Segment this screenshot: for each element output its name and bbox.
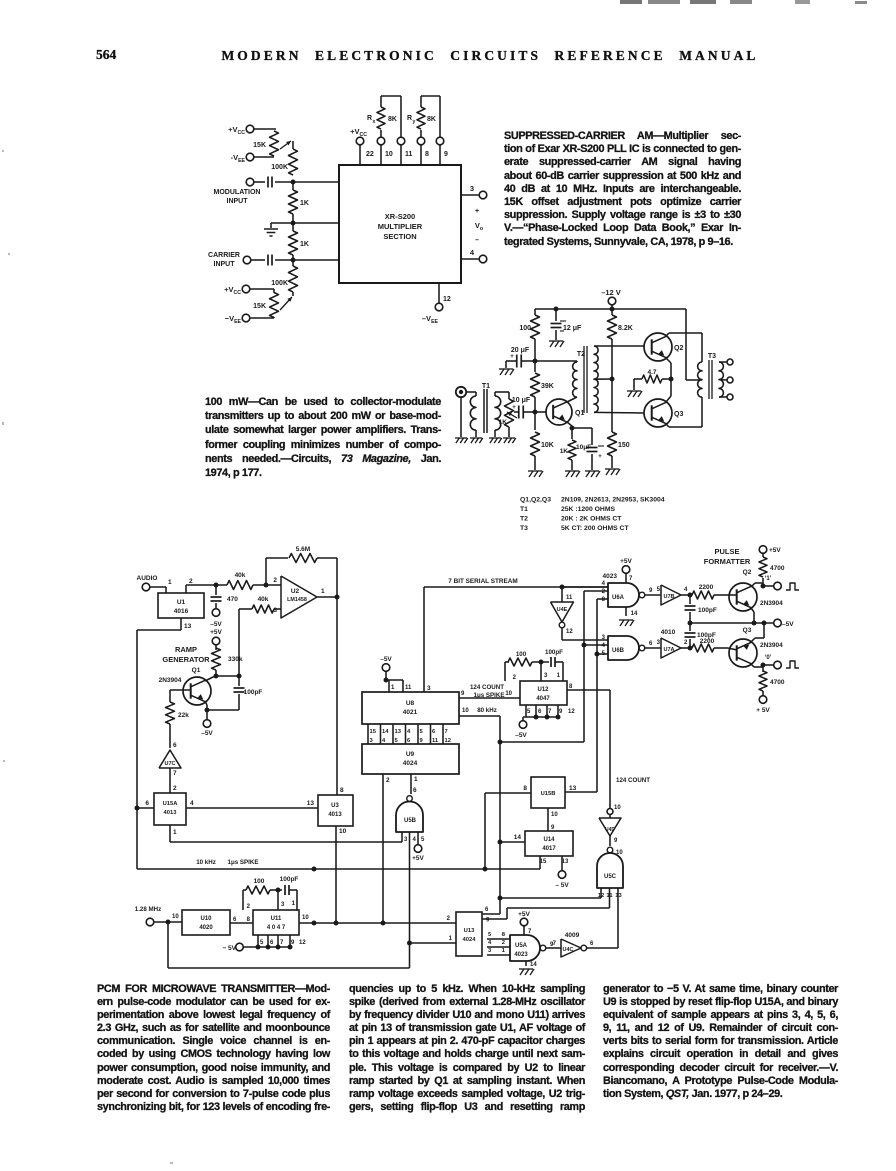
svg-text:Q3: Q3 bbox=[743, 627, 752, 634]
svg-text:14: 14 bbox=[382, 729, 389, 735]
wire Q3 collector bbox=[751, 663, 774, 668]
wire Q2 emitter bbox=[751, 608, 754, 623]
svg-text:INPUT: INPUT bbox=[227, 198, 249, 205]
svg-text:100: 100 bbox=[519, 325, 531, 332]
svg-text:4: 4 bbox=[413, 837, 417, 843]
svg-text:R: R bbox=[407, 115, 412, 122]
wire 10kHz spike line bbox=[137, 859, 540, 869]
buffer U7C bbox=[159, 742, 181, 777]
node output 0 bbox=[765, 655, 799, 669]
svg-text:4: 4 bbox=[684, 587, 688, 593]
IC U3 4013 flip-flop bbox=[318, 795, 353, 826]
wire top rail bbox=[535, 308, 686, 310]
svg-text:5: 5 bbox=[488, 932, 492, 938]
svg-text:x: x bbox=[373, 119, 376, 125]
svg-text:4017: 4017 bbox=[542, 846, 556, 852]
svg-text:1K: 1K bbox=[560, 448, 569, 455]
text block: PCM column 1 bbox=[97, 983, 330, 1114]
svg-text:10: 10 bbox=[462, 708, 469, 714]
svg-text:7 BIT SERIAL STREAM: 7 BIT SERIAL STREAM bbox=[448, 578, 517, 585]
node 1.28MHz input bbox=[135, 906, 182, 926]
node -5V rail bbox=[688, 619, 795, 628]
svg-text:U3: U3 bbox=[331, 803, 339, 809]
svg-text:1: 1 bbox=[557, 673, 561, 679]
svg-text:12: 12 bbox=[299, 940, 306, 946]
svg-text:T2: T2 bbox=[520, 516, 528, 523]
wire x597 net bbox=[565, 599, 608, 792]
node AUDIO input terminal bbox=[137, 575, 172, 593]
label pulse formatter bbox=[704, 547, 751, 566]
wire 1.28MHz rail bottom bbox=[168, 922, 410, 968]
svg-text:11: 11 bbox=[432, 738, 439, 744]
svg-text:7: 7 bbox=[173, 770, 177, 777]
svg-text:13: 13 bbox=[395, 729, 402, 735]
svg-text:3: 3 bbox=[370, 738, 374, 744]
svg-text:40k: 40k bbox=[235, 572, 246, 579]
svg-text:6: 6 bbox=[485, 907, 489, 913]
svg-text:12: 12 bbox=[566, 629, 573, 635]
svg-text:U9: U9 bbox=[406, 751, 415, 758]
capacitor 100pF timing bbox=[532, 649, 563, 681]
svg-text:10 μF: 10 μF bbox=[512, 397, 531, 404]
node ramp junction bbox=[214, 674, 242, 679]
svg-text:124 COUNT: 124 COUNT bbox=[616, 777, 650, 784]
svg-text:3: 3 bbox=[657, 640, 661, 646]
wire U15B pin10 to U14 bbox=[548, 808, 558, 831]
svg-text:y: y bbox=[413, 119, 416, 125]
wire Q2 emitter bbox=[666, 358, 671, 379]
capacitor 100pF lower bbox=[685, 623, 716, 651]
svg-text:13: 13 bbox=[615, 893, 622, 899]
wire bbox=[238, 609, 240, 676]
svg-text:8: 8 bbox=[340, 787, 344, 794]
svg-text:Q1: Q1 bbox=[575, 410, 584, 417]
svg-text:Q3: Q3 bbox=[674, 411, 683, 418]
svg-text:+: + bbox=[512, 405, 516, 411]
wire audio bus bbox=[186, 584, 227, 586]
resistor 4700 lower bbox=[756, 667, 785, 714]
parts list text bbox=[520, 497, 665, 533]
svg-text:‘1’: ‘1’ bbox=[765, 576, 772, 582]
svg-text:U7C: U7C bbox=[164, 761, 175, 767]
ground bbox=[605, 469, 620, 475]
wire rail to T3 CT bbox=[686, 309, 702, 380]
svg-text:–5V: –5V bbox=[515, 732, 527, 739]
svg-text:12 μF: 12 μF bbox=[563, 325, 582, 332]
svg-text:2: 2 bbox=[513, 675, 517, 681]
node +5V ramp supply bbox=[210, 629, 222, 650]
resistor 330k bbox=[212, 648, 243, 676]
svg-text:+VCC: +VCC bbox=[350, 127, 367, 138]
wire bbox=[293, 222, 339, 224]
transistor Q2 bbox=[644, 333, 683, 361]
svg-text:R: R bbox=[367, 115, 372, 122]
svg-text:5: 5 bbox=[395, 738, 399, 744]
svg-text:330k: 330k bbox=[228, 656, 243, 663]
resistor 1K emitter bbox=[560, 428, 576, 470]
svg-text:1: 1 bbox=[292, 901, 296, 907]
svg-text:11: 11 bbox=[405, 151, 413, 158]
svg-text:1: 1 bbox=[168, 579, 172, 586]
svg-text:CARRIER: CARRIER bbox=[208, 252, 240, 259]
buffer U7B 4010 bbox=[645, 585, 690, 605]
svg-text:100K: 100K bbox=[271, 280, 288, 287]
IC U11 4047 mono bbox=[253, 910, 299, 935]
svg-text:Q2: Q2 bbox=[674, 345, 683, 352]
svg-text:2200: 2200 bbox=[699, 584, 714, 591]
transformer T2 bbox=[573, 346, 644, 413]
svg-text:8: 8 bbox=[502, 932, 506, 938]
wire Q2 collector bbox=[751, 583, 766, 589]
svg-text:1.28 MHz: 1.28 MHz bbox=[135, 906, 161, 913]
resistor 2200 lower bbox=[692, 638, 728, 652]
svg-text:FORMATTER: FORMATTER bbox=[704, 557, 751, 566]
node junction bbox=[688, 593, 693, 598]
text block: PCM column 3 bbox=[603, 983, 838, 1101]
svg-text:3: 3 bbox=[427, 685, 431, 692]
svg-text:2: 2 bbox=[247, 904, 251, 910]
buffer U7A 4010 bbox=[645, 629, 690, 658]
wire U9 pin2 bbox=[383, 774, 390, 923]
svg-text:+5V: +5V bbox=[210, 629, 222, 636]
IC U14 4017 bbox=[525, 831, 573, 856]
node output pin 3 bbox=[461, 184, 487, 199]
svg-text:8.2K: 8.2K bbox=[618, 325, 633, 332]
svg-text:15K: 15K bbox=[253, 142, 266, 149]
svg-text:6: 6 bbox=[413, 787, 417, 794]
resistor 100 U11 timing bbox=[243, 878, 270, 910]
resistor 5.6M feedback bbox=[266, 546, 337, 597]
svg-text:14: 14 bbox=[631, 611, 638, 617]
svg-text:U6B: U6B bbox=[612, 648, 625, 654]
ground bbox=[565, 471, 580, 477]
svg-text:8: 8 bbox=[602, 597, 606, 603]
inverter U4E bbox=[551, 587, 609, 640]
wire U15B pin8 bbox=[485, 785, 531, 869]
svg-text:39K: 39K bbox=[541, 383, 554, 390]
svg-text:4024: 4024 bbox=[463, 937, 477, 943]
svg-text:PULSE: PULSE bbox=[714, 547, 739, 556]
wire U8 pin3 serial bbox=[424, 587, 608, 692]
ground bbox=[585, 471, 600, 477]
svg-text:6: 6 bbox=[145, 800, 149, 807]
capacitor modulation coupling bbox=[253, 177, 339, 188]
capacitor 100pF U11 bbox=[270, 876, 298, 910]
wire Q2 collector bbox=[666, 333, 702, 336]
node pin 12 -VEE bbox=[422, 283, 451, 325]
svg-text:3: 3 bbox=[281, 902, 285, 908]
wire U2 output down to U3 pin 8 bbox=[337, 597, 344, 795]
svg-text:4: 4 bbox=[602, 643, 606, 649]
svg-text:4009: 4009 bbox=[565, 932, 580, 939]
svg-text:100pF: 100pF bbox=[545, 649, 563, 656]
svg-text:1: 1 bbox=[449, 936, 453, 942]
ground bbox=[627, 391, 642, 397]
svg-text:+: + bbox=[598, 454, 602, 460]
svg-text:U4E: U4E bbox=[557, 607, 568, 613]
svg-text:4020: 4020 bbox=[199, 925, 213, 931]
wire serial to pin4 bbox=[562, 586, 608, 588]
svg-text:U13: U13 bbox=[464, 928, 475, 934]
wire U12 pin8 bbox=[567, 684, 610, 808]
svg-text:2N3904: 2N3904 bbox=[159, 677, 182, 684]
svg-text:10: 10 bbox=[505, 691, 512, 697]
transformer T1 bbox=[466, 383, 509, 437]
svg-text:1μs SPIKE: 1μs SPIKE bbox=[228, 859, 259, 866]
svg-text:+5V: +5V bbox=[620, 558, 632, 565]
svg-text:14: 14 bbox=[530, 962, 537, 968]
svg-text:MODULATION: MODULATION bbox=[214, 189, 261, 196]
wire U15A pin 1 bbox=[170, 825, 402, 842]
gate U6B 4023 bbox=[602, 635, 653, 660]
svg-text:9: 9 bbox=[614, 838, 618, 844]
inverter U4D bbox=[599, 815, 623, 856]
buffer U4C 4009 bbox=[546, 932, 618, 957]
svg-text:–5V: –5V bbox=[782, 621, 794, 628]
svg-text:SECTION: SECTION bbox=[383, 232, 416, 241]
IC U15B 4013 bbox=[531, 777, 565, 808]
wire U5C pin11 bbox=[482, 888, 610, 919]
svg-text:5: 5 bbox=[420, 729, 424, 735]
label ramp generator bbox=[162, 645, 210, 664]
svg-text:6: 6 bbox=[649, 641, 653, 647]
svg-text:1: 1 bbox=[502, 948, 506, 954]
svg-text:4013: 4013 bbox=[164, 810, 178, 816]
wires U12 bottom pins bbox=[515, 705, 575, 739]
svg-text:8: 8 bbox=[569, 684, 573, 690]
node pin 8 bbox=[417, 137, 429, 165]
svg-text:8: 8 bbox=[523, 785, 527, 792]
svg-text:4: 4 bbox=[382, 738, 386, 744]
wire U8 pin9 to U12 bbox=[459, 691, 520, 698]
svg-text:3: 3 bbox=[470, 184, 474, 193]
svg-text:10: 10 bbox=[339, 828, 347, 835]
resistor 40k inverting bbox=[239, 596, 281, 613]
potentiometer 1K bbox=[499, 399, 517, 437]
svg-text:+5V: +5V bbox=[769, 547, 781, 554]
svg-text:8K: 8K bbox=[388, 116, 397, 123]
svg-text:U15B: U15B bbox=[541, 791, 556, 797]
node MODULATION INPUT terminal bbox=[214, 178, 261, 205]
node Q1 emitter junction bbox=[567, 422, 575, 431]
node -VEE terminal upper bbox=[231, 153, 254, 164]
capacitor 10uF emitter bbox=[572, 428, 604, 470]
svg-text:U14: U14 bbox=[543, 837, 555, 843]
svg-text:U4D: U4D bbox=[605, 827, 615, 833]
wire U13 pin6 bbox=[482, 907, 500, 914]
svg-text:2: 2 bbox=[189, 578, 193, 585]
svg-text:1μs SPIKE: 1μs SPIKE bbox=[474, 692, 505, 699]
wire U5C pin13 bbox=[617, 888, 619, 948]
svg-text:40k: 40k bbox=[258, 596, 269, 603]
svg-text:1K: 1K bbox=[300, 200, 309, 207]
svg-text:LM1458: LM1458 bbox=[287, 597, 307, 603]
svg-text:–5V: –5V bbox=[201, 730, 213, 737]
svg-text:9: 9 bbox=[551, 825, 555, 831]
svg-text:4: 4 bbox=[407, 729, 411, 735]
ground bbox=[549, 341, 564, 347]
svg-text:–5V: –5V bbox=[210, 621, 222, 628]
node +5V U5A bbox=[518, 911, 532, 935]
wires U13 to U5A bbox=[487, 932, 510, 955]
wire U15A pin 6 bbox=[135, 800, 155, 811]
svg-text:11: 11 bbox=[566, 595, 573, 601]
svg-text:4013: 4013 bbox=[328, 812, 342, 818]
wire Q1 collector bbox=[205, 676, 216, 681]
wire Q1 emitter node bbox=[201, 701, 239, 737]
node junction serial bbox=[560, 585, 565, 590]
svg-text:Vo: Vo bbox=[475, 221, 483, 232]
svg-text:− 5V: − 5V bbox=[222, 945, 236, 952]
wire U8 pin10 80kHz bbox=[459, 707, 500, 914]
wire U10-U11 bbox=[230, 917, 253, 923]
node +VCC terminal upper bbox=[228, 125, 254, 136]
node -VEE terminal lower bbox=[225, 314, 274, 325]
svg-text:U12: U12 bbox=[537, 687, 549, 693]
svg-text:+VCC: +VCC bbox=[228, 125, 245, 136]
node T3 secondary terminals bbox=[727, 359, 733, 400]
svg-text:2: 2 bbox=[502, 940, 505, 946]
svg-text:9: 9 bbox=[444, 151, 448, 158]
svg-text:RAMP: RAMP bbox=[175, 645, 197, 654]
IC U12 4047 mono bbox=[520, 681, 567, 705]
svg-text:10: 10 bbox=[302, 915, 309, 921]
resistor 8.2K bbox=[608, 309, 633, 379]
svg-text:100pF: 100pF bbox=[280, 876, 299, 883]
gate U5B 4023 bbox=[396, 787, 425, 843]
wire Q3 collector bbox=[666, 424, 702, 427]
node junction bbox=[214, 583, 219, 588]
gate U6A 4023 bbox=[602, 573, 653, 607]
resistor 39K bbox=[531, 361, 554, 412]
svg-text:4047: 4047 bbox=[536, 696, 550, 702]
wire U7C to U15A bbox=[170, 768, 177, 793]
resistor 4.7 bbox=[634, 369, 671, 390]
svg-text:MULTIPLIER: MULTIPLIER bbox=[378, 222, 423, 231]
potentiometer 15K upper bbox=[253, 131, 291, 156]
wire bbox=[460, 398, 462, 438]
svg-text:10 kHz: 10 kHz bbox=[196, 859, 216, 866]
svg-text:2200: 2200 bbox=[700, 638, 715, 645]
svg-text:+: + bbox=[475, 208, 479, 215]
svg-text:U8: U8 bbox=[406, 700, 415, 707]
resistor 100 timing bbox=[505, 651, 532, 681]
resistor 100K lower bbox=[271, 260, 297, 292]
wire U13 pin1 bbox=[410, 916, 457, 943]
svg-text:Q1,Q2,Q3: Q1,Q2,Q3 bbox=[520, 497, 551, 504]
node output pin 4 bbox=[461, 248, 487, 263]
svg-text:4023: 4023 bbox=[603, 573, 618, 580]
node +VCC terminal lower bbox=[224, 285, 274, 296]
node +5V U5B bbox=[412, 832, 424, 862]
svg-text:7: 7 bbox=[280, 940, 284, 946]
node +5V U6A bbox=[620, 558, 633, 583]
svg-text:6: 6 bbox=[432, 729, 436, 735]
node input bubble U4D bbox=[607, 805, 621, 815]
svg-text:4: 4 bbox=[488, 940, 492, 946]
svg-text:U7A: U7A bbox=[663, 647, 674, 653]
node junction bbox=[407, 941, 412, 946]
capacitor 20uF bbox=[506, 347, 535, 368]
label 7-bit serial stream bbox=[448, 578, 517, 585]
svg-text:2: 2 bbox=[684, 640, 688, 646]
IC U1 4016 transmission gate bbox=[158, 593, 204, 618]
svg-text:U2: U2 bbox=[291, 588, 300, 595]
ground bbox=[455, 438, 468, 443]
svg-text:5K CT: 200 OHMS CT: 5K CT: 200 OHMS CT bbox=[561, 525, 629, 532]
svg-text:4016: 4016 bbox=[174, 608, 189, 615]
capacitor 100pF upper bbox=[685, 595, 717, 623]
svg-text:4: 4 bbox=[470, 248, 475, 257]
wires U8-U9 pins bbox=[368, 724, 451, 744]
capacitor 12uF bbox=[551, 309, 583, 340]
text block: 100 mW caption bbox=[205, 395, 441, 480]
svg-text:T3: T3 bbox=[520, 525, 528, 532]
svg-text:4024: 4024 bbox=[403, 760, 418, 767]
svg-text:4021: 4021 bbox=[403, 709, 418, 716]
svg-text:12: 12 bbox=[568, 709, 575, 715]
node input jack bbox=[456, 387, 466, 397]
node pin 11 bbox=[397, 137, 412, 165]
node -5V U14 bbox=[555, 856, 569, 889]
text block: suppressed-carrier AM caption bbox=[504, 130, 741, 249]
svg-text:9: 9 bbox=[559, 709, 563, 715]
svg-text:4700: 4700 bbox=[770, 679, 785, 686]
svg-text:5: 5 bbox=[657, 587, 661, 593]
wire bbox=[253, 156, 274, 157]
svg-text:2: 2 bbox=[447, 916, 451, 922]
wire U5B pin3 bbox=[401, 832, 403, 842]
resistor 4700 upper bbox=[759, 546, 785, 583]
svg-text:U1: U1 bbox=[177, 599, 186, 606]
svg-text:1: 1 bbox=[391, 685, 395, 691]
wire U15B pin13 bbox=[569, 785, 577, 792]
IC U13 4024 counter bbox=[456, 912, 482, 956]
svg-text:3: 3 bbox=[404, 837, 408, 843]
node Q1 base junction bbox=[533, 410, 548, 415]
svg-text:20K : 2K OHMS CT: 20K : 2K OHMS CT bbox=[561, 516, 622, 523]
resistor 1K upper bbox=[289, 182, 309, 223]
potentiometer 15K lower bbox=[253, 292, 293, 318]
svg-text:100pF: 100pF bbox=[698, 607, 717, 614]
text block: PCM column 2 bbox=[349, 983, 585, 1114]
svg-text:25K :1200 OHMS: 25K :1200 OHMS bbox=[561, 506, 615, 513]
svg-text:XR-S200: XR-S200 bbox=[385, 212, 415, 221]
svg-text:9: 9 bbox=[461, 691, 465, 697]
svg-text:6: 6 bbox=[173, 742, 177, 749]
wire U13 pin9 bbox=[486, 918, 490, 924]
running head title bbox=[0, 48, 896, 64]
svg-text:10: 10 bbox=[172, 914, 179, 920]
svg-text:3: 3 bbox=[544, 673, 548, 679]
scan artifact marks at top edge bbox=[620, 0, 810, 4]
node modulation junction bbox=[291, 180, 296, 185]
svg-text:4010: 4010 bbox=[661, 629, 676, 636]
svg-text:150: 150 bbox=[618, 442, 630, 449]
wire bbox=[253, 128, 276, 130]
svg-text:–12 V: –12 V bbox=[601, 288, 621, 297]
node 20uF junction bbox=[533, 359, 538, 364]
svg-text:13: 13 bbox=[307, 800, 315, 807]
svg-text:5: 5 bbox=[421, 837, 425, 843]
svg-text:12: 12 bbox=[445, 738, 451, 744]
node junction bbox=[264, 583, 269, 588]
svg-text:4.7: 4.7 bbox=[647, 369, 656, 376]
svg-text:100: 100 bbox=[254, 878, 265, 885]
svg-text:INPUT: INPUT bbox=[214, 261, 236, 268]
transistor Q3 bbox=[644, 399, 683, 427]
svg-text:14: 14 bbox=[514, 834, 522, 841]
